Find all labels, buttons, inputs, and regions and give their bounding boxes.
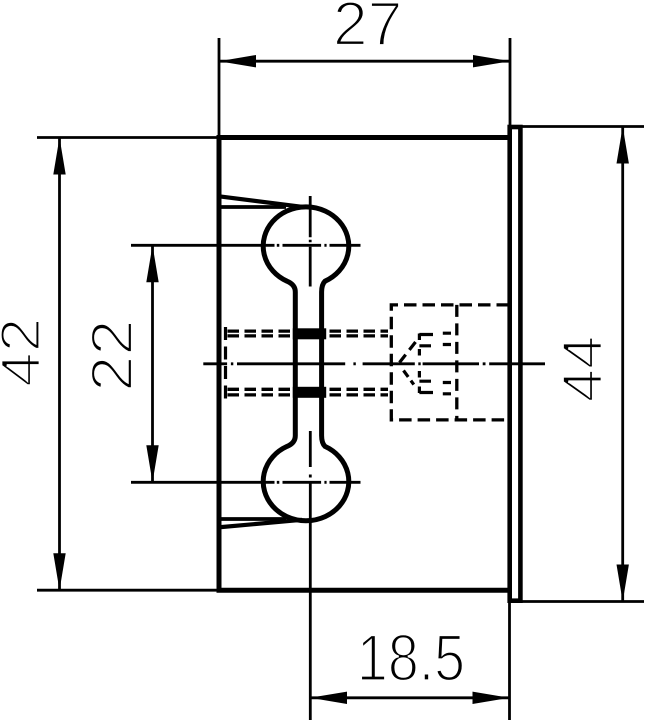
- bottom spring tab upper line: [218, 517, 286, 521]
- hidden latch: lower arms: [419, 381, 433, 392]
- hidden double line lower pair: [228, 389, 389, 395]
- hidden latch: lower right dashes: [443, 383, 451, 394]
- dim 22 arrow top: [146, 245, 158, 282]
- centerline horizontal main: [203, 362, 545, 365]
- hidden inner vertical edge: [455, 305, 458, 420]
- svg-text:27: 27: [333, 0, 403, 59]
- hidden double line upper pair: [228, 331, 389, 336]
- dim 27 extension right: [509, 38, 512, 127]
- dim 22 line: [151, 245, 154, 482]
- centerline bottom hole horizontal / 22 extension bottom: [131, 481, 361, 484]
- dim 42 line: [58, 138, 61, 591]
- side flange strip: [510, 127, 521, 601]
- bottom spring tab sloped line: [218, 520, 302, 528]
- dim 27 line: [219, 60, 510, 63]
- hidden square cam housing box: [391, 305, 509, 420]
- hidden latch: lower vertical: [418, 371, 421, 394]
- centerline top hole vertical: [309, 196, 312, 287]
- dim 18.5 arrow left: [310, 692, 347, 704]
- svg-text:22: 22: [80, 319, 145, 391]
- dim 42 extension bottom: [37, 589, 219, 592]
- dim 27 extension left: [218, 38, 221, 138]
- dim 42 extension top: [37, 136, 219, 139]
- body outline (mounting plate front view): [219, 138, 510, 591]
- svg-text:18.5: 18.5: [357, 621, 465, 695]
- solid bar where square hole crosses slot (upper): [293, 328, 326, 339]
- hidden latch: upper right dashes: [443, 333, 451, 344]
- top spring tab sloped line: [218, 196, 302, 207]
- dim 44 extension top: [520, 125, 645, 128]
- hidden latch: upper arms: [419, 335, 433, 346]
- top spring tab lower line: [218, 205, 286, 209]
- dog-bone slot with two round holes: [263, 207, 349, 521]
- centerline top hole horizontal / 22 extension top: [131, 244, 361, 247]
- dim 18.5 arrow right: [473, 692, 510, 704]
- dim 27 arrow left: [219, 55, 256, 67]
- hidden spring diagonal upper: [400, 337, 420, 363]
- dim 44 arrow bottom: [617, 565, 629, 602]
- solid bar where square hole crosses slot (lower): [293, 387, 326, 398]
- dim 18.5 extension right: [508, 601, 511, 720]
- dim 44 arrow top: [617, 127, 629, 164]
- svg-text:44: 44: [551, 336, 614, 403]
- dim 44 extension bottom: [520, 600, 645, 603]
- hidden latch: upper vertical: [418, 334, 421, 357]
- hidden spring diagonal lower: [404, 371, 414, 385]
- svg-text:42: 42: [0, 318, 52, 387]
- dim 44 line: [621, 127, 624, 602]
- centerline bottom hole vertical + 18.5 extension: [309, 431, 312, 720]
- dim 27 arrow right: [473, 55, 510, 67]
- dim 42 arrow bottom: [53, 553, 65, 590]
- dim 22 arrow bottom: [146, 445, 158, 482]
- dim 42 arrow top: [53, 138, 65, 175]
- dim 18.5 line: [310, 696, 510, 699]
- hidden line: inner fold near left edge: [224, 327, 227, 401]
